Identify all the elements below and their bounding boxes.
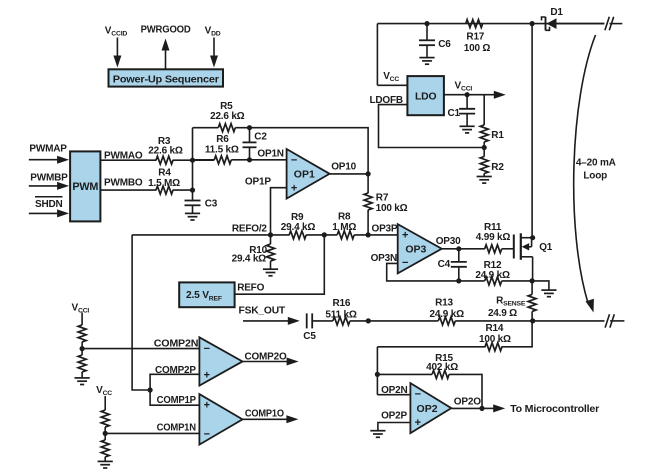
node OP2P label [381, 410, 407, 421]
capacitor C5 label [303, 331, 316, 342]
svg-text:R4: R4 [158, 168, 171, 179]
wire R6 to OP1 inverting input [231, 159, 286, 161]
resistor R11 label [476, 222, 511, 243]
wire COMP1P input [150, 390, 199, 405]
node PWRGOOD label [141, 25, 191, 36]
node VCCID label [105, 26, 128, 38]
break symbol bottom right [605, 314, 624, 327]
svg-text:29.4 kΩ: 29.4 kΩ [232, 254, 267, 265]
wire R13 to loop return [455, 320, 604, 322]
svg-text:OP3: OP3 [405, 244, 426, 256]
wire R12 to Q1 source node [502, 280, 532, 282]
wire OP3 output [442, 248, 485, 250]
comparator COMP2 [199, 337, 242, 385]
svg-text:R1: R1 [491, 130, 504, 141]
node VCC label (left divider) [96, 385, 112, 397]
node PWMBO label [104, 177, 143, 188]
svg-text:R16: R16 [333, 298, 351, 309]
ground below VCCI divider [75, 378, 90, 385]
capacitor C6 [419, 24, 435, 58]
svg-text:+: + [415, 417, 421, 429]
label To Microcontroller [510, 404, 599, 415]
node COMP common junction [148, 387, 153, 392]
node OP1P label [245, 177, 271, 188]
svg-text:PWM: PWM [72, 181, 98, 193]
wire R8 to OP3P [354, 234, 398, 236]
svg-text:PWMBO: PWMBO [104, 177, 143, 188]
transistor Q1 [514, 233, 533, 281]
wire COMP2P input [150, 374, 199, 390]
block Power-Up Sequencer U4 [109, 69, 224, 86]
ground below R10 [263, 269, 278, 276]
block PWM U5 [70, 151, 100, 221]
resistor R9 [289, 231, 306, 239]
svg-text:PWRGOOD: PWRGOOD [141, 25, 191, 36]
svg-text:OP1: OP1 [294, 169, 315, 181]
wire R16 to junction [350, 320, 368, 322]
svg-text:+: + [204, 369, 210, 381]
resistor R2 label [491, 162, 504, 173]
resistor R10 [267, 235, 275, 269]
node OP2O junction [479, 406, 484, 411]
svg-text:REFO: REFO [237, 283, 264, 294]
block 2.5V reference U3 [179, 282, 234, 307]
node OP3N label [371, 253, 397, 264]
resistor R1 [480, 95, 488, 148]
node Q1 drain junction [530, 235, 535, 240]
ground at Q1 source [532, 281, 556, 297]
diode D1 label [550, 7, 563, 18]
svg-text:402 kΩ: 402 kΩ [426, 362, 458, 373]
node OP30 junction [456, 246, 461, 251]
resistor R14 label [479, 323, 511, 345]
node C4 bottom junction [456, 278, 461, 283]
wire loop supply vertical [531, 24, 533, 238]
loop arrow arc [574, 35, 596, 313]
svg-text:C4: C4 [438, 259, 451, 270]
svg-text:−: − [291, 155, 297, 167]
wire COMP1N [105, 432, 199, 434]
svg-text:22.6 kΩ: 22.6 kΩ [148, 146, 183, 157]
svg-text:100 Ω: 100 Ω [464, 43, 491, 54]
svg-text:COMP1O: COMP1O [245, 408, 284, 419]
wire D1 to loop break [557, 23, 605, 25]
svg-text:29.4 kΩ: 29.4 kΩ [281, 222, 316, 233]
wire OP2 output [451, 407, 482, 409]
wire REFO/2 row [132, 234, 290, 236]
wire VCC into LDO [377, 84, 407, 86]
divider resistor upper (VCCI) [78, 313, 86, 349]
ground below VCC divider [98, 461, 113, 468]
svg-text:Power-Up Sequencer: Power-Up Sequencer [113, 75, 219, 86]
resistor R9 label [281, 212, 316, 233]
ground below C6 [419, 58, 434, 65]
wire PWMBO [100, 189, 156, 191]
svg-text:OP1N: OP1N [257, 149, 283, 160]
resistor R10 label [232, 245, 268, 265]
wire R9 to REFO junction [306, 234, 337, 236]
wire OP10 to R7 [367, 174, 369, 193]
wire to R13 [368, 320, 438, 322]
break symbol top right [605, 17, 622, 30]
resistor R13 label [429, 298, 464, 321]
svg-text:OP30: OP30 [436, 236, 461, 247]
svg-text:OP10: OP10 [331, 161, 356, 172]
resistor R8 label [332, 211, 356, 233]
wire REFO to REFO/2 divider [235, 235, 325, 294]
node OP1N label [257, 149, 283, 160]
resistor R4 [156, 186, 173, 194]
node loop return junction [530, 318, 535, 323]
divider resistor upper (VCC) [101, 396, 109, 433]
node R1/R2 junction [482, 145, 487, 150]
svg-text:R8: R8 [338, 211, 351, 222]
node OP3P label [372, 224, 398, 235]
node VCCI label [455, 80, 473, 92]
resistor R12 label [475, 260, 510, 281]
node C2 top junction [247, 125, 252, 130]
wire C5 to R16 [312, 320, 333, 322]
resistor R16 [333, 317, 350, 325]
wire OP2N column vertical [376, 347, 378, 395]
svg-text:COMP1N: COMP1N [157, 422, 196, 433]
wire PWMAP input arrow [29, 156, 69, 164]
capacitor C3 [185, 201, 201, 214]
svg-text:R6: R6 [216, 134, 229, 145]
op-amp OP2 [410, 383, 451, 433]
capacitor C5 [307, 313, 313, 328]
svg-text:−: − [402, 257, 408, 269]
svg-text:FSK_OUT: FSK_OUT [239, 306, 286, 317]
wire C4 to R12 [459, 280, 485, 282]
node D1 junction [530, 21, 535, 26]
svg-text:11.5 kΩ: 11.5 kΩ [205, 144, 239, 155]
node VCCI divider junction [80, 346, 85, 351]
node B junction [190, 188, 195, 193]
label 4-20 mA Loop [576, 158, 616, 182]
capacitor C3 label [205, 199, 218, 210]
node VCC divider junction [103, 431, 108, 436]
svg-text:Loop: Loop [583, 171, 607, 182]
svg-text:+: + [204, 400, 210, 412]
node OP1N junction with C2 [247, 157, 252, 162]
capacitor C4 label [438, 259, 451, 270]
resistor RSENSE [528, 281, 536, 321]
node COMP1P label [157, 395, 197, 406]
svg-text:100 kΩ: 100 kΩ [376, 203, 408, 214]
op-amp OP3 [398, 224, 442, 273]
svg-text:OP3N: OP3N [371, 253, 397, 264]
resistor R1 label [491, 130, 504, 141]
node VCC label (LDO) [383, 71, 399, 83]
wire LDOFB to R1/R2 divider [379, 105, 485, 148]
resistor R11 [485, 245, 502, 253]
wire FSK_OUT arrow [243, 317, 300, 325]
resistor R15 [432, 370, 449, 378]
svg-text:Q1: Q1 [539, 242, 553, 253]
resistor R6 label [205, 134, 239, 156]
diode D1 (schottky) [542, 17, 557, 31]
svg-text:PWMBP: PWMBP [30, 173, 68, 184]
capacitor C1 label [448, 108, 461, 119]
wire VCCI output [444, 91, 506, 99]
wire R15 left [377, 373, 432, 375]
ground at OP2P [370, 431, 385, 438]
svg-text:SHDN: SHDN [35, 199, 63, 210]
node OP10 junction [366, 171, 371, 176]
wire R7 to OP3P node [367, 210, 369, 235]
wire PWMAO [100, 159, 156, 161]
svg-text:22.6 kΩ: 22.6 kΩ [210, 111, 245, 122]
svg-text:LDO: LDO [415, 92, 436, 103]
node COMP2P label [155, 365, 196, 376]
wire COMP2N [82, 348, 199, 350]
svg-text:D1: D1 [550, 7, 563, 18]
svg-text:−: − [204, 343, 210, 355]
node SHDN label (active low) [35, 197, 63, 210]
svg-text:OP2P: OP2P [381, 410, 407, 421]
svg-text:4.99 kΩ: 4.99 kΩ [476, 232, 511, 243]
node VDD label [205, 26, 221, 38]
svg-text:OP2: OP2 [417, 403, 438, 415]
svg-text:+: + [291, 182, 297, 194]
resistor R3 label [148, 136, 183, 157]
resistor R13 [438, 317, 455, 325]
capacitor C2 [243, 128, 257, 160]
node FSK_OUT label [239, 306, 286, 317]
wire output arrow to microcontroller [482, 404, 505, 412]
resistor R3 [156, 156, 173, 164]
node COMP1N label [157, 422, 196, 433]
svg-text:OP2O: OP2O [454, 397, 481, 408]
transistor Q1 label [539, 242, 553, 253]
ground below C3 [185, 213, 200, 220]
resistor R12 [485, 277, 502, 285]
svg-text:4–20 mA: 4–20 mA [576, 158, 616, 169]
node REFO label [237, 283, 264, 294]
capacitor C2 label [254, 132, 267, 143]
svg-text:C2: C2 [254, 132, 267, 143]
svg-text:24.9 Ω: 24.9 Ω [488, 308, 517, 319]
node LDOFB label [370, 95, 403, 106]
capacitor C4 [451, 249, 467, 281]
svg-text:PWMAP: PWMAP [29, 144, 67, 155]
svg-text:C3: C3 [205, 199, 218, 210]
node REFO junction [322, 232, 327, 237]
resistor R16 label [325, 298, 356, 321]
node OP10 label [331, 161, 356, 172]
node REFO/2 label [232, 224, 268, 235]
capacitor C1 [459, 95, 475, 127]
wire OP1P input from REFO/2 [271, 188, 287, 235]
divider resistor lower (VCCI) [78, 349, 86, 378]
resistor R5 [218, 124, 235, 132]
svg-text:R2: R2 [491, 162, 504, 173]
node OP3P junction [366, 232, 371, 237]
wire top supply rail [377, 23, 604, 25]
wire R5 right to OP1 output column [235, 128, 368, 174]
wire COMP2 output arrow [243, 358, 299, 366]
resistor R5 label [210, 101, 245, 122]
ground below R2 [477, 177, 492, 184]
wire OP3N input [387, 263, 459, 281]
node OP2O label [454, 397, 481, 408]
svg-text:OP3P: OP3P [372, 224, 398, 235]
svg-text:C5: C5 [303, 331, 316, 342]
wire R4 to node B [173, 189, 193, 191]
wire loop junction down to R14 [501, 321, 532, 347]
svg-text:To Microcontroller: To Microcontroller [510, 404, 599, 415]
divider resistor lower (VCC) [101, 433, 109, 461]
wire VCCID input arrow [113, 38, 121, 68]
node R15 junction [375, 372, 380, 377]
svg-text:C6: C6 [438, 39, 451, 50]
node PWMBP label [30, 173, 68, 184]
resistor R7 [364, 193, 372, 210]
wire COMP1 output arrow [243, 415, 299, 423]
resistor R17 label [464, 32, 491, 54]
wire R5 left [193, 127, 219, 129]
svg-text:100 kΩ: 100 kΩ [479, 334, 511, 345]
wire OP2N input [377, 394, 410, 396]
wire PWMBP input arrow [29, 182, 69, 190]
resistor R17 [466, 20, 483, 28]
node COMP2N label [154, 339, 198, 350]
resistor R7 label [376, 193, 408, 215]
svg-text:+: + [402, 230, 408, 242]
node FSK junction (OP3P column) [366, 318, 371, 323]
wire rail down to LDO VCC [376, 24, 378, 86]
wire PWRGOOD output arrow [162, 39, 170, 70]
resistor R8 [337, 231, 354, 239]
wire VDD input arrow [210, 38, 218, 68]
node Q1 source junction [530, 278, 535, 283]
svg-text:OP1P: OP1P [245, 177, 271, 188]
node REFO/2 junction (OP1P/R10) [268, 232, 273, 237]
wire SHDN input arrow [29, 209, 69, 217]
resistor R6 [214, 156, 231, 164]
wire R11 to Q1 gate [502, 248, 514, 250]
node PWMAP label [29, 144, 67, 155]
resistor RSENSE label [488, 295, 526, 319]
node C6 junction [424, 21, 429, 26]
node COMP1O label [245, 408, 284, 419]
wire REFO/2 long vertical [132, 235, 150, 390]
svg-text:−: − [415, 389, 421, 401]
node A junction (R3/R4/C3 column top) [190, 158, 195, 163]
wire R15 right to OP2 output [449, 374, 482, 408]
node OP2N label [381, 385, 407, 396]
svg-text:R7: R7 [376, 193, 389, 204]
wire OP1N left [193, 159, 215, 161]
svg-text:REFO/2: REFO/2 [232, 224, 268, 235]
block LDO U2 [407, 76, 444, 115]
ground below C1 [460, 126, 475, 133]
svg-text:R13: R13 [435, 298, 453, 309]
node VCCI label (left divider) [72, 302, 90, 314]
resistor R15 label [426, 353, 458, 373]
resistor R2 [480, 148, 488, 177]
op-amp OP1 [287, 149, 330, 199]
wire OP1 output [330, 173, 369, 175]
node VCCI junction C1 [465, 92, 470, 97]
node PWMAO label [104, 150, 143, 161]
wire OP2P input [378, 423, 411, 431]
comparator COMP1 [199, 394, 242, 445]
resistor R14 [485, 343, 502, 351]
wire R3 to node A [173, 159, 215, 161]
svg-text:−: − [204, 428, 210, 440]
wire node A vertical (R5 feedback to C3) [192, 128, 194, 201]
svg-text:R14: R14 [486, 323, 504, 334]
svg-text:C1: C1 [448, 108, 461, 119]
wire R14 to OP2N column [377, 346, 485, 348]
resistor R4 label [148, 168, 180, 189]
capacitor C6 label [438, 39, 451, 50]
node COMP2O label [245, 351, 287, 362]
node OP30 label [436, 236, 461, 247]
svg-text:R17: R17 [466, 32, 484, 43]
